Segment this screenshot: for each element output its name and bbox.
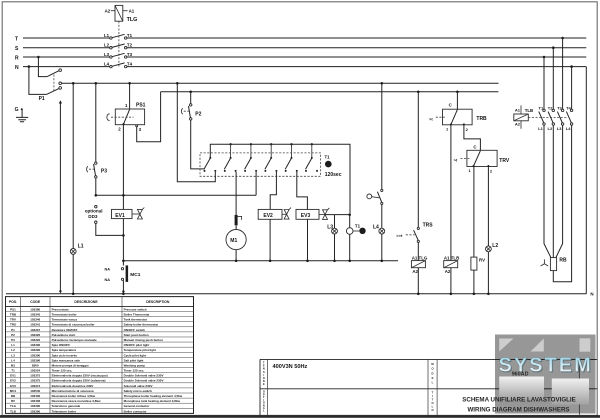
svg-text:EV3: EV3 (10, 384, 16, 388)
svg-text:RV: RV (11, 399, 15, 403)
coil TLB (444, 125, 460, 294)
svg-text:P1: P1 (11, 328, 15, 332)
svg-text:103540: 103540 (30, 389, 40, 393)
phase rail T (15, 36, 586, 42)
svg-text:103375: 103375 (30, 379, 40, 383)
svg-text:103375: 103375 (30, 374, 40, 378)
svg-text:Pulsantiera start: Pulsantiera start (52, 333, 76, 337)
svg-text:TLB: TLB (525, 108, 534, 113)
contactor TLG contact L1-T1 (104, 33, 133, 39)
svg-text:103380: 103380 (30, 307, 40, 311)
contactor TLG coil (105, 5, 138, 23)
svg-text:103390: 103390 (30, 343, 40, 347)
svg-text:L3: L3 (327, 224, 333, 230)
solenoid valve EV1 (112, 208, 145, 220)
svg-text:EV2: EV2 (263, 213, 273, 219)
svg-text:Monophase tank heating element: Monophase tank heating element 3,8kw (124, 399, 181, 403)
svg-text:T3: T3 (127, 52, 133, 57)
lamp L1 (70, 83, 83, 293)
svg-text:EV1: EV1 (10, 374, 16, 378)
svg-text:8360: 8360 (32, 363, 39, 367)
svg-text:T1: T1 (355, 224, 361, 229)
svg-text:Spia ON/OFF: Spia ON/OFF (52, 343, 71, 347)
svg-text:Manual rinsing push button: Manual rinsing push button (124, 338, 163, 342)
svg-text:L4: L4 (373, 224, 379, 230)
svg-text:Cycle pilot light: Cycle pilot light (124, 353, 146, 357)
phase rail S (15, 46, 586, 52)
svg-text:N: N (590, 292, 593, 297)
contactor TLB contact T4-L4 (566, 67, 573, 131)
svg-text:L3: L3 (11, 353, 15, 357)
svg-text:Boiler contactor: Boiler contactor (124, 409, 148, 413)
svg-text:M1: M1 (11, 363, 15, 367)
svg-text:RB: RB (559, 258, 567, 264)
svg-text:TRB: TRB (10, 313, 17, 317)
svg-text:RV: RV (479, 257, 485, 262)
svg-text:P3: P3 (101, 168, 107, 174)
svg-text:P2: P2 (195, 111, 201, 117)
svg-text:Tank thermostat: Tank thermostat (124, 318, 147, 322)
svg-text:R: R (15, 55, 19, 61)
svg-text:L1: L1 (11, 343, 15, 347)
wire EV3 valve to lamp node (325, 213, 351, 216)
motor M1 (226, 225, 246, 260)
svg-text:>>t: >>t (396, 233, 403, 238)
svg-text:Spia mancanza sale: Spia mancanza sale (52, 358, 81, 362)
svg-text:T1: T1 (325, 154, 331, 159)
svg-text:POS.: POS. (9, 300, 17, 304)
micro switch MC1 (105, 265, 141, 293)
logo SYSTEM (495, 335, 596, 414)
svg-text:Resistenza boiler trifase 4,5k: Resistenza boiler trifase 4,5kw (52, 394, 96, 398)
wire neutral right drop (585, 67, 587, 294)
timer cam 6 (305, 157, 318, 172)
wire return collector line (123, 260, 398, 263)
wire PS1 pin3 to bus 2 (137, 92, 161, 142)
wire timer cam 4 to EV2 (270, 172, 276, 210)
svg-text:Deviatore ON/OFF: Deviatore ON/OFF (52, 328, 78, 332)
svg-text:103390: 103390 (30, 358, 40, 362)
svg-text:PS1: PS1 (10, 307, 16, 311)
switch P1 (29, 57, 62, 102)
contactor TLB contact T3-L3 (557, 38, 564, 131)
wire TLB neutral loop (553, 125, 571, 282)
svg-text:Double Solenoid valve 230V: Double Solenoid valve 230V (124, 374, 164, 378)
contactor TLB coil top (514, 105, 567, 128)
svg-text:A2: A2 (445, 269, 451, 274)
svg-text:Elettrovalvola doppia 230V (ri: Elettrovalvola doppia 230V (risciacquo) (52, 374, 108, 378)
svg-text:M1: M1 (230, 238, 237, 244)
contactor TLG contact L3-T3 (104, 52, 133, 58)
svg-text:103524: 103524 (30, 369, 40, 373)
heating element RB (550, 258, 567, 271)
svg-text:TRV: TRV (10, 318, 16, 322)
svg-text:Termostato vasca: Termostato vasca (52, 318, 78, 322)
resistor RV (471, 166, 485, 293)
svg-text:WIRING DIAGRAM DISHWASHERS: WIRING DIAGRAM DISHWASHERS (467, 407, 569, 414)
svg-text:Elettrovalvola dosatrice 230V: Elettrovalvola dosatrice 230V (52, 384, 94, 388)
svg-text:Solenoid valve 230V: Solenoid valve 230V (124, 384, 153, 388)
svg-text:T: T (15, 36, 18, 42)
svg-text:TLB: TLB (10, 409, 17, 413)
wire timer cam 1 to bus 1 (177, 83, 215, 181)
wire timer cam 3 down (255, 172, 257, 195)
svg-text:103374: 103374 (30, 384, 40, 388)
svg-text:103430: 103430 (30, 394, 40, 398)
svg-text:DESCRIPTION: DESCRIPTION (146, 300, 170, 304)
svg-text:103315: 103315 (30, 328, 40, 332)
svg-text:L4: L4 (104, 62, 110, 67)
timer cam 5 (285, 157, 298, 172)
svg-text:T1: T1 (127, 33, 133, 38)
svg-text:L4: L4 (11, 358, 15, 362)
neutral bus N (6, 292, 594, 297)
contactor TLG contact L2-T2 (104, 43, 133, 49)
svg-text:NA: NA (105, 278, 111, 282)
ground G (15, 107, 29, 122)
wire P3 to timer cam 3 output (95, 178, 257, 197)
svg-text:Temperature pilot light: Temperature pilot light (124, 348, 156, 352)
svg-text:Termostato di sicurezza boiler: Termostato di sicurezza boiler (52, 323, 96, 327)
timer cam 3 (244, 157, 257, 172)
svg-text:SCHEMA UNIFILIARE LAVASTOVIGLI: SCHEMA UNIFILIARE LAVASTOVIGLIE (462, 397, 576, 404)
legend table (6, 297, 194, 414)
lamp L4 (373, 205, 385, 261)
svg-text:A1 TLB: A1 TLB (444, 255, 459, 260)
svg-text:Pressure switch: Pressure switch (124, 307, 147, 311)
solenoid valve EV2 (258, 208, 291, 261)
svg-text:TRS: TRS (423, 222, 434, 228)
svg-text:L1: L1 (78, 244, 84, 250)
contactor TLB contact T2-L2 (548, 48, 555, 131)
svg-text:PS1: PS1 (136, 103, 146, 109)
title text (462, 397, 576, 414)
svg-text:Pressostato: Pressostato (52, 307, 69, 311)
wire control bus 1 (62, 82, 499, 85)
svg-text:T4: T4 (127, 62, 133, 67)
title block (260, 359, 597, 415)
timer cam 1 (204, 157, 217, 172)
svg-text:Threephase boiler heating elem: Threephase boiler heating element 4,5kw (124, 394, 183, 398)
svg-text:P2: P2 (11, 333, 15, 337)
svg-text:TRV: TRV (499, 158, 510, 164)
svg-text:Safety boiler thermostat: Safety boiler thermostat (124, 323, 158, 327)
svg-text:Teleruttore boiler: Teleruttore boiler (52, 409, 77, 413)
svg-text:CODE: CODE (30, 300, 41, 304)
svg-text:Pulsantiera risciacquo manuale: Pulsantiera risciacquo manuale (52, 338, 97, 342)
svg-text:Safety micro-switch: Safety micro-switch (124, 389, 153, 393)
svg-text:MC1: MC1 (10, 389, 17, 393)
lamp L3 (327, 215, 337, 261)
svg-text:103406: 103406 (30, 399, 40, 403)
wire P1 to neutral bus (59, 100, 62, 293)
svg-text:DESCRIZIONE: DESCRIZIONE (74, 300, 98, 304)
push button P2 (181, 92, 201, 120)
svg-text:TRB: TRB (476, 116, 487, 122)
svg-text:Motore pompa di lavaggio: Motore pompa di lavaggio (52, 363, 89, 367)
phase rail N (15, 65, 586, 71)
svg-text:103320: 103320 (30, 333, 40, 337)
fan symbol (541, 259, 549, 266)
svg-text:103390: 103390 (30, 404, 40, 408)
timer motor T1 symbol (325, 154, 342, 178)
wire TLB phase 2 to RB (552, 125, 554, 257)
svg-text:L3: L3 (557, 126, 562, 131)
svg-text:G: G (15, 107, 19, 113)
thermostat TRV (454, 144, 510, 173)
phase rail R (15, 55, 586, 61)
svg-text:A1: A1 (129, 8, 135, 13)
wire TLB phase 1 to RB (544, 125, 551, 257)
contactor TLG contact L4-T4 (104, 62, 133, 68)
svg-text:EV2: EV2 (10, 379, 16, 383)
svg-text:ON/OFF pilot light: ON/OFF pilot light (124, 343, 150, 347)
lamp L2 (486, 166, 499, 293)
wire control bus 2 (161, 91, 499, 94)
svg-text:L1: L1 (104, 33, 110, 38)
optional contact DD3 (85, 206, 124, 236)
wire TRB pin2 to TRV (464, 125, 481, 151)
svg-text:MC1: MC1 (130, 272, 140, 278)
timer cam 4 (264, 157, 277, 172)
svg-text:400V3N 50Hz: 400V3N 50Hz (273, 364, 308, 370)
svg-text:L2: L2 (548, 126, 553, 131)
contactor TLG mechanical link (118, 21, 120, 67)
svg-text:Teleruttore generale: Teleruttore generale (52, 404, 81, 408)
svg-text:optional: optional (85, 209, 103, 214)
solenoid valve EV3 (296, 208, 329, 261)
svg-text:L1: L1 (538, 126, 543, 131)
wire P2 to timer cam 1 common (191, 120, 205, 169)
svg-text:Double Solenoid valve 230V: Double Solenoid valve 230V (124, 379, 164, 383)
svg-text:Washing pump: Washing pump (124, 363, 146, 367)
svg-text:Spia temperatura: Spia temperatura (52, 348, 77, 352)
svg-text:A1 TLG: A1 TLG (412, 255, 428, 260)
svg-text:Salt pilot light: Salt pilot light (124, 358, 144, 362)
svg-text:103390: 103390 (30, 409, 40, 413)
svg-text:Timer 120 sec.: Timer 120 sec. (52, 369, 73, 373)
svg-text:T1: T1 (11, 369, 15, 373)
svg-text:Start push button: Start push button (124, 333, 149, 337)
wire PS1 pin2 to EV1 and MC1 (122, 125, 125, 266)
contactor TLB contact T1-L1 (538, 57, 545, 131)
pilot timer T1 lamp (346, 215, 365, 261)
svg-text:General contactor: General contactor (124, 404, 151, 408)
svg-text:TLG: TLG (127, 17, 138, 23)
push button P3 (87, 83, 108, 178)
svg-text:Boiler Thermostat: Boiler Thermostat (124, 313, 150, 317)
thermostat TRS (396, 92, 433, 243)
svg-text:Resistenza vasca monofase 3,8k: Resistenza vasca monofase 3,8kw (52, 399, 102, 403)
svg-text:P1: P1 (39, 96, 45, 102)
svg-text:P3: P3 (11, 338, 15, 342)
svg-text:Microinterruttore di sicurezza: Microinterruttore di sicurezza (52, 389, 94, 393)
motor protector MC (235, 172, 242, 225)
svg-text:Spia ciclo inserito: Spia ciclo inserito (52, 353, 78, 357)
svg-text:ON/OFF switch: ON/OFF switch (124, 328, 146, 332)
svg-text:TLG: TLG (10, 404, 17, 408)
svg-text:A1: A1 (515, 108, 521, 113)
svg-text:EV1: EV1 (115, 213, 125, 219)
wire timer cam 5 to EV3 (297, 172, 308, 210)
svg-text:DD3: DD3 (88, 214, 98, 219)
svg-text:A2: A2 (515, 122, 521, 127)
svg-text:103346: 103346 (30, 318, 40, 322)
svg-text:103341: 103341 (30, 323, 40, 327)
float switch salt (367, 83, 383, 204)
svg-text:L3: L3 (104, 52, 110, 57)
svg-text:120sec: 120sec (325, 172, 342, 178)
svg-text:103345: 103345 (30, 313, 40, 317)
svg-text:L2: L2 (492, 243, 498, 249)
svg-text:TRS: TRS (10, 323, 16, 327)
svg-text:EV3: EV3 (301, 213, 311, 219)
svg-text:A2: A2 (105, 8, 111, 13)
svg-text:L4: L4 (566, 126, 571, 131)
svg-text:A2: A2 (412, 269, 418, 274)
svg-text:103390: 103390 (30, 348, 40, 352)
svg-text:Elettrovalvola doppia 230V (sa: Elettrovalvola doppia 230V (salamoia) (52, 379, 106, 383)
coil TLG (411, 243, 427, 294)
svg-text:103320: 103320 (30, 338, 40, 342)
wire timer feed rail (210, 143, 350, 213)
svg-text:NA: NA (105, 267, 111, 271)
thermostat TRB (429, 92, 487, 132)
wire TLB phase 3 to RB (556, 125, 563, 257)
timer cam 2 (224, 157, 237, 172)
svg-text:L2: L2 (11, 348, 15, 352)
svg-text:T2: T2 (127, 43, 133, 48)
svg-text:L2: L2 (104, 43, 110, 48)
svg-text:Termostato boiler: Termostato boiler (52, 313, 78, 317)
svg-text:960AD: 960AD (512, 372, 529, 378)
pressure switch PS1 (107, 83, 146, 132)
svg-text:103390: 103390 (30, 353, 40, 357)
timer T1 cam box (200, 153, 321, 176)
svg-text:N: N (15, 65, 19, 71)
svg-text:Timer 120 sec.: Timer 120 sec. (124, 369, 145, 373)
